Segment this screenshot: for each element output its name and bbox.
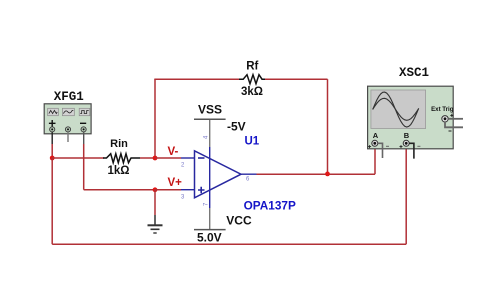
channel B minus dash <box>417 145 420 147</box>
XFG1 triangle button <box>62 108 74 115</box>
XFG1 minus mark <box>80 122 86 124</box>
svg-text:Ext Trig: Ext Trig <box>431 106 454 113</box>
svg-text:VSS: VSS <box>198 103 222 117</box>
ext trig plus mark <box>450 114 453 117</box>
junction dot V+ node <box>153 187 158 192</box>
svg-text:OPA137P: OPA137P <box>244 199 296 213</box>
scope trace B <box>373 98 419 120</box>
op-amp output pin <box>240 173 257 175</box>
XFG1 common pin stub <box>67 132 69 142</box>
svg-text:5.0V: 5.0V <box>197 231 222 245</box>
wire: V- node to op-amp inverting pin <box>155 157 181 159</box>
wire: V+ node down to ground <box>154 190 156 215</box>
wire: up to scope channel A <box>374 147 376 175</box>
svg-text:A: A <box>373 131 379 140</box>
ext trig lower hook <box>445 122 463 127</box>
scope channel A terminal <box>372 140 378 146</box>
wire: V+ node to op-amp non-inverting pin <box>155 189 181 191</box>
svg-text:Rf: Rf <box>246 61 258 73</box>
svg-text:4: 4 <box>204 135 210 139</box>
wire: feedback top horizontal right of Rf <box>265 78 328 80</box>
ext trig upper stub <box>448 118 463 120</box>
channel A plus mark <box>368 145 371 148</box>
ext trig minus mark <box>449 130 452 132</box>
scope channel B terminal <box>403 140 409 146</box>
wire: XFG1 minus to V+ node <box>84 189 155 191</box>
XFG1 square button <box>79 108 90 115</box>
channel A minus dash <box>386 145 389 147</box>
channel B plus mark <box>400 145 403 148</box>
svg-text:VCC: VCC <box>226 214 252 228</box>
wire: feedback top horizontal left of Rf <box>154 78 240 80</box>
wire: feedback right vertical down to output node <box>327 79 329 174</box>
wire: XFG1 minus down <box>83 144 85 190</box>
op-amp inverting input pin <box>181 157 195 159</box>
wire: scope channel B down <box>405 147 407 245</box>
XFG1 sine button <box>48 108 59 115</box>
svg-text:2: 2 <box>181 163 185 169</box>
junction dot V- node <box>153 156 158 161</box>
svg-text:U1: U1 <box>245 136 260 148</box>
ground lead <box>154 215 156 225</box>
oscilloscope XSC1 body <box>368 86 454 149</box>
XFG1 plus mark <box>49 120 56 127</box>
resistor Rin <box>103 154 140 163</box>
junction dot input node <box>50 156 55 161</box>
svg-text:B: B <box>404 131 410 140</box>
svg-text:1kΩ: 1kΩ <box>107 165 129 177</box>
XFG1 common terminal <box>65 127 70 132</box>
XFG1 plus pin stub <box>51 132 53 144</box>
ext trig terminal <box>442 116 448 122</box>
scope trace A <box>373 92 419 127</box>
svg-text:-5V: -5V <box>227 120 246 134</box>
svg-text:6: 6 <box>246 177 250 183</box>
svg-text:XSC1: XSC1 <box>399 66 429 80</box>
wire: Rin to V- node <box>140 157 155 159</box>
VCC pin gray lead <box>209 208 211 230</box>
junction dot output node <box>325 172 330 177</box>
op-amp minus symbol <box>198 157 205 159</box>
VSS bar <box>194 118 226 120</box>
svg-text:3kΩ: 3kΩ <box>241 86 263 98</box>
op-amp non-inverting input pin <box>181 189 195 191</box>
function generator XFG1 body <box>44 104 91 134</box>
wire: feedback top left vertical (V- node up to Rf) <box>154 79 156 158</box>
XFG1 minus terminal <box>81 127 86 132</box>
wire: output to scope A corner <box>257 173 376 175</box>
wire: input node to Rin <box>52 157 104 159</box>
wire: bottom return rail <box>52 243 406 245</box>
svg-text:7: 7 <box>204 202 210 206</box>
channel B minus hook <box>409 143 414 158</box>
svg-text:Rin: Rin <box>110 138 128 150</box>
svg-text:V-: V- <box>168 146 179 158</box>
wire: left return vertical up to input node <box>51 158 53 244</box>
ground <box>148 225 163 233</box>
oscilloscope screen <box>371 90 426 129</box>
channel A minus hook <box>378 143 383 158</box>
op-amp U1 triangle <box>195 151 242 198</box>
resistor Rf <box>239 75 266 84</box>
XFG1 plus terminal <box>50 127 55 132</box>
wire: XFG1 plus to input node <box>51 144 53 158</box>
svg-text:XFG1: XFG1 <box>54 90 84 104</box>
op-amp plus symbol <box>198 187 205 194</box>
op-amp power pin vertical line <box>209 147 211 208</box>
XFG1 minus pin stub <box>83 132 85 144</box>
VCC bar <box>194 229 226 231</box>
svg-text:V+: V+ <box>168 177 183 189</box>
svg-text:3: 3 <box>181 195 185 201</box>
VSS pin gray lead <box>209 119 211 147</box>
